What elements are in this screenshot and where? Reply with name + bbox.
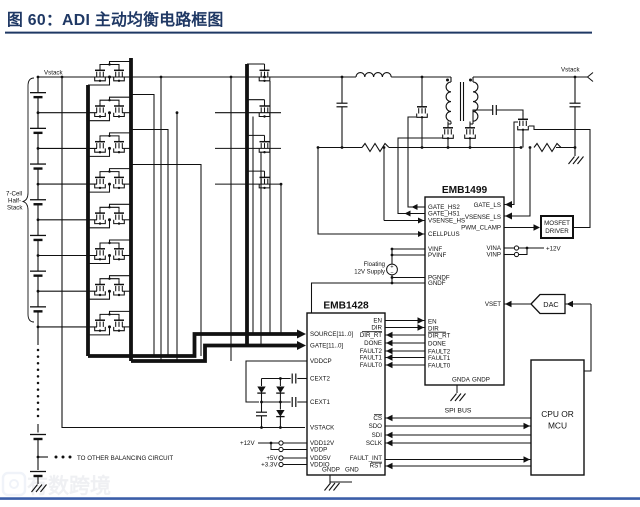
svg-text:GNDF: GNDF (428, 280, 446, 287)
svg-text:SOURCE[11..0]: SOURCE[11..0] (310, 331, 353, 338)
svg-text:PVINF: PVINF (428, 252, 446, 259)
svg-text:Half-: Half- (8, 198, 21, 205)
svg-text:Vstack: Vstack (561, 67, 580, 74)
svg-text:PWM_CLAMP: PWM_CLAMP (461, 225, 501, 232)
svg-text:GATE[11..0]: GATE[11..0] (310, 343, 343, 350)
svg-text:CPU OR: CPU OR (541, 409, 574, 419)
svg-text:+12V: +12V (546, 246, 561, 253)
svg-text:GND: GND (345, 467, 359, 474)
svg-text:TO OTHER BALANCING CIRCUIT: TO OTHER BALANCING CIRCUIT (77, 455, 173, 462)
svg-text:CELLPLUS: CELLPLUS (428, 231, 460, 238)
svg-text:12V Supply: 12V Supply (354, 270, 385, 276)
svg-text:DIR_RT: DIR_RT (428, 333, 450, 340)
svg-text:SDI: SDI (372, 432, 383, 439)
svg-text:MCU: MCU (548, 421, 567, 431)
svg-text:VSENSE_LS: VSENSE_LS (465, 214, 501, 221)
svg-text:FAULT0: FAULT0 (360, 362, 383, 369)
svg-text:7-Cell: 7-Cell (6, 191, 22, 198)
svg-text:VSTACK: VSTACK (310, 425, 335, 432)
svg-text:DIR: DIR (371, 325, 382, 332)
svg-text:VSENSE_HS: VSENSE_HS (428, 218, 465, 225)
svg-text:DRIVER: DRIVER (545, 228, 569, 235)
svg-text:图 60：ADI 主动均衡电路框图: 图 60：ADI 主动均衡电路框图 (7, 10, 224, 29)
svg-text:Stack: Stack (7, 205, 23, 212)
svg-text:Floating: Floating (364, 262, 385, 268)
svg-text:EMB1428: EMB1428 (323, 301, 369, 312)
svg-text:GATE_HS1: GATE_HS1 (428, 211, 460, 218)
svg-text:GNDA: GNDA (452, 377, 471, 384)
svg-text:DIR_RT: DIR_RT (360, 332, 382, 339)
svg-text:+12V: +12V (240, 440, 255, 447)
svg-text:FAULT1: FAULT1 (360, 355, 383, 362)
svg-text:DIR: DIR (428, 326, 439, 333)
svg-text:SCLK: SCLK (366, 440, 383, 447)
svg-text:FAULT0: FAULT0 (428, 363, 451, 370)
svg-text:SPI BUS: SPI BUS (445, 408, 472, 415)
svg-text:GATE_LS: GATE_LS (474, 202, 501, 209)
svg-text:SDO: SDO (369, 423, 383, 430)
svg-text:DONE: DONE (428, 341, 446, 348)
svg-text:VDDP: VDDP (310, 447, 327, 454)
svg-text:有数跨境: 有数跨境 (27, 474, 111, 498)
svg-text:FAULT_INT: FAULT_INT (350, 455, 382, 462)
svg-text:DAC: DAC (543, 300, 558, 309)
svg-text:VDDCP: VDDCP (310, 358, 332, 365)
svg-text:VSET: VSET (485, 301, 501, 308)
svg-text:VINP: VINP (487, 252, 501, 259)
svg-text:FAULT1: FAULT1 (428, 355, 451, 362)
svg-text:DONE: DONE (364, 340, 382, 347)
svg-text:RST: RST (370, 463, 383, 470)
svg-text:EN: EN (428, 319, 437, 326)
svg-text:GNDP: GNDP (472, 377, 490, 384)
svg-text:EN: EN (373, 318, 382, 325)
svg-text:CEXT2: CEXT2 (310, 376, 331, 383)
svg-text:+3.3V: +3.3V (261, 462, 278, 469)
svg-text:CS: CS (373, 415, 382, 422)
svg-text:Vstack: Vstack (44, 70, 63, 77)
svg-text:CEXT1: CEXT1 (310, 399, 331, 406)
svg-text:EMB1499: EMB1499 (442, 185, 488, 196)
svg-text:GNDP: GNDP (322, 467, 340, 474)
svg-text:MOSFET: MOSFET (544, 220, 570, 227)
